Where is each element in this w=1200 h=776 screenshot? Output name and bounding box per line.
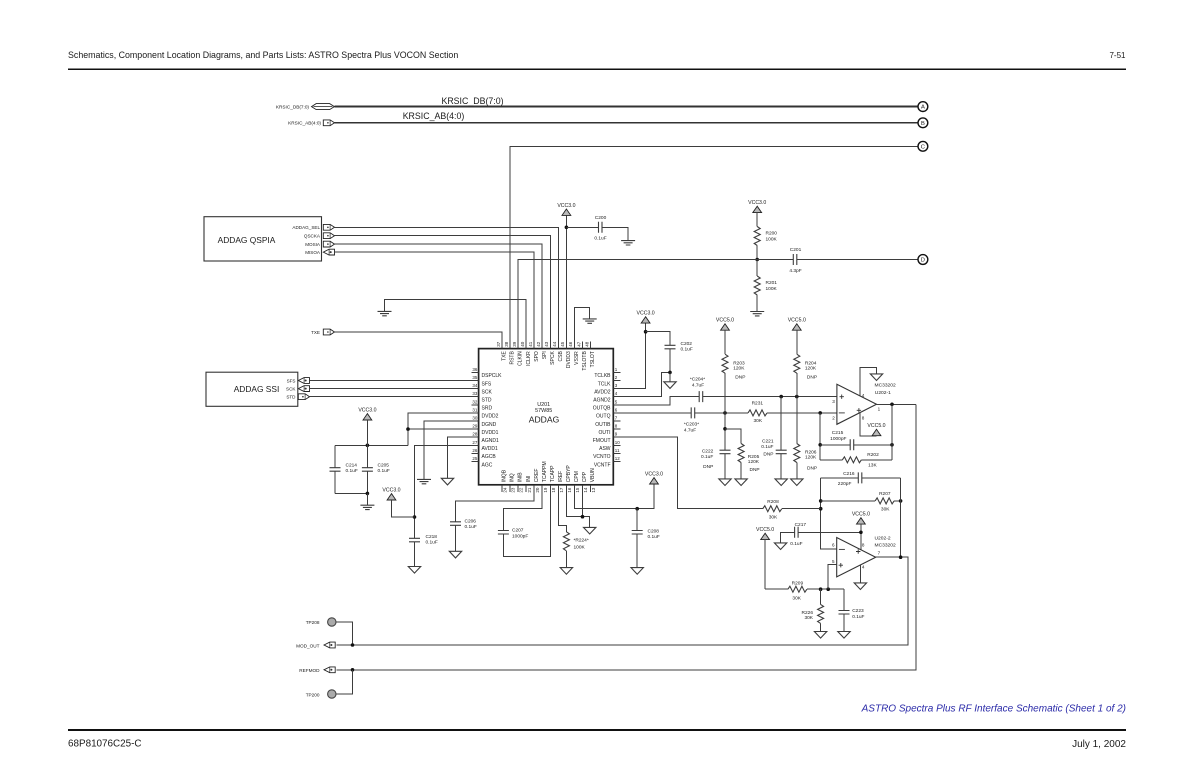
capacitor C200: [599, 222, 603, 233]
svg-text:0.1uF: 0.1uF: [594, 236, 606, 242]
svg-text:DVDD3: DVDD3: [566, 351, 572, 368]
svg-text:*C204*: *C204*: [690, 376, 705, 382]
junction R203/C222 tap: [723, 411, 727, 415]
svg-text:REFMOD: REFMOD: [299, 668, 320, 673]
power VCC5.0 at R203: [721, 324, 730, 330]
resistor R204 DNP: [794, 354, 800, 373]
wire ICLKR pin 40 to ground: [385, 300, 527, 349]
svg-text:VBUN: VBUN: [590, 468, 596, 482]
svg-text:8: 8: [862, 543, 865, 548]
svg-text:37: 37: [496, 341, 501, 347]
svg-text:FMOUT: FMOUT: [593, 438, 611, 444]
pin 14 CPP stub: [582, 485, 584, 492]
svg-text:TCAPP: TCAPP: [550, 465, 556, 482]
svg-text:16: 16: [567, 487, 572, 493]
junction at ground: [366, 492, 370, 496]
junction feedback tap: [818, 411, 822, 415]
svg-text:KRSIC_AB(4:0): KRSIC_AB(4:0): [288, 121, 321, 126]
svg-text:STD: STD: [482, 398, 492, 404]
wire R208 to U202-2: [782, 508, 821, 510]
pin 42 SPI stub: [541, 342, 543, 349]
svg-text:R231: R231: [752, 400, 764, 406]
svg-text:120K: 120K: [733, 366, 745, 372]
pin 38 RSTB stub: [509, 342, 511, 349]
analog ground at R224: [560, 568, 572, 575]
pin 30 DGND stub: [472, 420, 479, 422]
ground at C200: [621, 241, 635, 245]
wire C201 to D: [797, 259, 918, 261]
wire feedback left column: [819, 413, 821, 460]
analog ground at R205: [735, 479, 747, 486]
wire TXE to pin 37: [335, 332, 503, 349]
resistor R224: [563, 532, 569, 551]
svg-text:DNP: DNP: [807, 465, 817, 471]
wire CPM pin 15 to VCC3.0: [575, 484, 655, 509]
wire D line left to CLKIN pin 39: [518, 260, 793, 349]
wire C line to RSTB: [510, 146, 918, 348]
pin 16 CPBYP stub: [565, 485, 567, 492]
pin 41 SPO stub: [533, 342, 535, 349]
svg-text:DNP: DNP: [807, 375, 817, 381]
svg-text:VCC5.0: VCC5.0: [716, 318, 734, 324]
svg-text:C: C: [921, 144, 925, 150]
svg-text:4: 4: [615, 391, 618, 396]
power VCC3.0 at DVDD rail: [363, 414, 372, 420]
block ADDAG SSI: [206, 372, 298, 406]
svg-text:4.7uF: 4.7uF: [692, 382, 704, 388]
junction C215 left: [818, 443, 822, 447]
svg-text:VCNTO: VCNTO: [593, 454, 611, 460]
analog ground at C208: [631, 568, 643, 575]
wire VCC3.0 to DVDD3 pin 45: [565, 215, 567, 348]
svg-text:C222: C222: [702, 448, 714, 454]
wire C200 to ground: [602, 227, 628, 240]
analog ground at C223: [838, 632, 850, 639]
wire VCC5.0 to pin 8: [860, 524, 862, 550]
wire OUTQB pin 5 to C204: [613, 397, 699, 405]
pin 40 ICLKR stub: [525, 342, 527, 349]
wire R209 to + input node: [807, 588, 844, 590]
capacitor C206: [450, 522, 461, 526]
wire VCC3.0 to AVDD1: [392, 500, 415, 517]
wire U202-2 output to MOD_OUT: [337, 557, 908, 645]
ground at VSSR: [583, 319, 597, 323]
svg-text:17: 17: [559, 487, 564, 493]
svg-text:VCC5.0: VCC5.0: [756, 527, 774, 533]
tag TXE: [323, 329, 334, 335]
svg-text:VCC5.0: VCC5.0: [788, 318, 806, 324]
wire VCC5.0 to R203: [724, 330, 726, 354]
svg-text:7: 7: [878, 550, 881, 555]
tag ADDAG_SEL: [323, 224, 334, 230]
wire C217 to analog ground: [781, 532, 795, 543]
svg-text:35: 35: [472, 375, 478, 380]
svg-text:20: 20: [535, 487, 540, 493]
wire cap bottoms to ground: [335, 492, 367, 494]
wire AGND2 pin 4: [613, 372, 670, 396]
block ADDAG QSPIA: [204, 217, 322, 261]
svg-text:VCC3.0: VCC3.0: [557, 203, 575, 209]
analog ground at C218: [408, 567, 420, 574]
wire VCC5.0 to R204: [796, 330, 798, 354]
wire DVDD1 pin 29: [408, 428, 479, 430]
junction AVDD1/VCC3.0: [413, 515, 417, 519]
svg-text:DGND: DGND: [482, 422, 497, 428]
ground at DGND: [417, 479, 431, 483]
junction pin 5 riser: [826, 587, 830, 591]
svg-text:C207: C207: [512, 528, 524, 534]
analog ground at CPBYP: [584, 527, 596, 534]
svg-text:18: 18: [551, 487, 556, 493]
pin 27 AVDD1 stub: [472, 444, 479, 446]
svg-text:41: 41: [528, 341, 533, 347]
svg-text:3: 3: [832, 399, 835, 404]
svg-text:R226: R226: [802, 610, 814, 616]
resistor R206 DNP: [794, 444, 800, 463]
capacitor C217: [795, 527, 799, 538]
svg-text:VSSR: VSSR: [574, 351, 580, 365]
analog ground at C217: [774, 543, 786, 550]
wire VSSR pin 46 to ground: [575, 308, 590, 349]
wire MISOA to SPO pin 41: [335, 252, 535, 349]
svg-text:QSCKA: QSCKA: [304, 234, 321, 239]
capacitor C202: [665, 345, 676, 349]
svg-text:4: 4: [862, 393, 865, 398]
bus wire KRSIC_DB to A: [334, 106, 918, 108]
wire AVDD1 pin 27: [415, 445, 479, 538]
wire U202-1 pin 4 to analog ground: [860, 367, 876, 396]
svg-text:OUTI: OUTI: [599, 430, 611, 436]
svg-text:34: 34: [472, 383, 478, 388]
tag REFMOD: [324, 667, 335, 673]
svg-text:12: 12: [615, 456, 621, 461]
svg-text:0.1uF: 0.1uF: [648, 534, 660, 540]
svg-text:ADDAG QSPIA: ADDAG QSPIA: [218, 235, 276, 245]
resistor R207: [875, 498, 894, 504]
pin 11 VCNTO stub: [613, 452, 620, 454]
wire TP208 to MOD_OUT: [336, 622, 353, 645]
svg-text:9: 9: [615, 432, 618, 437]
svg-text:VCNTF: VCNTF: [594, 462, 611, 468]
pin 9 FMOUT stub: [613, 436, 620, 438]
svg-text:39: 39: [512, 341, 517, 347]
junction C221 tap: [779, 395, 783, 399]
pin 8 OUTI stub: [613, 428, 620, 430]
svg-text:SCK: SCK: [482, 389, 493, 395]
wire CREF pin 20 to C206: [456, 492, 535, 522]
wire C204 to op-amp +: [703, 396, 837, 398]
svg-text:INQB: INQB: [502, 469, 508, 482]
svg-text:33: 33: [472, 391, 478, 396]
pin 26 AGCB stub: [472, 452, 479, 454]
pin 15 CPM stub: [574, 485, 576, 492]
off-page connector D: [918, 255, 928, 265]
svg-text:7: 7: [615, 416, 618, 421]
power VCC5.0 at U202-1 pin 8: [872, 429, 881, 435]
svg-text:C201: C201: [790, 247, 802, 253]
svg-text:6: 6: [832, 543, 835, 548]
junction C222/R205: [723, 427, 727, 431]
wire R202 line: [820, 459, 842, 461]
wire SFS to pin 35: [310, 380, 479, 382]
wire C207 to TCAPP pin 18: [503, 492, 550, 557]
pin 2 TCLK stub: [613, 380, 620, 382]
pin 47 TSLOTB stub: [582, 342, 584, 349]
svg-text:220pF: 220pF: [838, 481, 852, 487]
svg-text:SPI: SPI: [542, 351, 548, 359]
svg-text:ADDAG: ADDAG: [529, 415, 560, 425]
svg-text:4: 4: [862, 565, 865, 570]
svg-text:13K: 13K: [868, 463, 877, 469]
svg-text:CPP: CPP: [582, 471, 588, 482]
svg-text:C206: C206: [465, 519, 477, 525]
svg-text:DSPCLK: DSPCLK: [482, 373, 503, 379]
svg-text:R206: R206: [805, 449, 817, 455]
tag SFS: [298, 378, 309, 384]
wire VCC5.0 down to R209: [764, 540, 766, 590]
junction TP200/REFMOD: [351, 668, 355, 672]
svg-text:R208: R208: [767, 499, 779, 505]
IC U201 ADDAG body: [479, 349, 614, 485]
svg-text:CPM: CPM: [574, 471, 580, 482]
junction R208 join: [819, 507, 823, 511]
svg-text:0.1uF: 0.1uF: [378, 468, 390, 474]
svg-text:30K: 30K: [881, 507, 890, 513]
tag MOSIA: [323, 241, 334, 247]
capacitor C214: [334, 445, 336, 467]
wire C221 column: [780, 397, 782, 451]
wire ADDAG_SEL to CSB pin 44: [335, 227, 559, 348]
svg-text:U202-2: U202-2: [875, 535, 891, 541]
svg-text:28: 28: [472, 432, 478, 437]
svg-text:SPCK: SPCK: [550, 351, 556, 365]
wire U202-2 pin 4 to analog ground: [859, 565, 861, 583]
svg-text:OUTQB: OUTQB: [593, 406, 611, 412]
wire R205 branch: [725, 429, 741, 444]
power VCC5.0 at R209: [761, 533, 770, 539]
svg-text:DNP: DNP: [703, 464, 713, 470]
junction output/C216 column: [899, 555, 903, 559]
capacitor C218: [409, 538, 420, 542]
pin 5 OUTQB stub: [613, 404, 620, 406]
svg-text:OUTQ: OUTQ: [596, 414, 611, 420]
svg-text:R205: R205: [748, 454, 760, 460]
svg-text:31: 31: [472, 407, 478, 412]
capacitor C223: [843, 589, 845, 610]
junction R226: [819, 587, 823, 591]
power VCC3.0 at R200: [753, 206, 762, 212]
svg-text:C208: C208: [648, 529, 660, 535]
svg-text:25: 25: [472, 456, 478, 461]
analog ground at C222: [719, 479, 731, 486]
svg-text:U201: U201: [537, 402, 550, 408]
svg-text:R207: R207: [879, 491, 891, 497]
wire output to REFMOD: [337, 404, 916, 670]
bus tag KRSIC_AB: [323, 120, 334, 126]
svg-text:TCLKB: TCLKB: [594, 373, 611, 379]
pin 23 INQ stub: [509, 485, 511, 492]
svg-text:0.1uF: 0.1uF: [761, 444, 773, 450]
svg-text:30K: 30K: [754, 418, 763, 424]
svg-text:22: 22: [519, 487, 524, 493]
pin 4 AGND2 stub: [613, 396, 620, 398]
ground at R201: [750, 312, 764, 316]
pin 3 AVDD2 stub: [613, 388, 620, 390]
analog ground at AGND2: [664, 382, 676, 389]
svg-text:100K: 100K: [766, 237, 778, 243]
svg-text:DVDD2: DVDD2: [482, 414, 499, 420]
wire feedback right column: [891, 404, 893, 460]
tag MOD_OUT: [324, 642, 335, 648]
power VCC3.0 at DVDD3: [562, 209, 571, 215]
wire CPBYP pin 16 to ground: [566, 492, 589, 528]
svg-text:11: 11: [615, 448, 620, 453]
svg-text:C215: C215: [832, 430, 844, 436]
svg-text:AVDD2: AVDD2: [594, 389, 611, 395]
wire R201 to ground: [756, 295, 758, 312]
wire C216 left column to pin 6: [821, 478, 837, 549]
wire DVDD2 pin 31: [408, 413, 479, 445]
svg-text:TP208: TP208: [306, 620, 320, 625]
svg-text:45: 45: [560, 341, 565, 347]
svg-text:C218: C218: [426, 534, 438, 540]
svg-text:27: 27: [472, 440, 478, 445]
wire VCC3.0 to R200: [756, 213, 758, 227]
svg-text:48: 48: [584, 341, 589, 347]
svg-text:MOD_OUT: MOD_OUT: [296, 643, 320, 648]
svg-text:VCC3.0: VCC3.0: [748, 200, 766, 206]
pin 33 STD stub: [472, 396, 479, 398]
pin 34 SCK stub: [472, 388, 479, 390]
svg-text:0.1uF: 0.1uF: [681, 346, 693, 352]
svg-text:OUTIB: OUTIB: [595, 422, 611, 428]
pin 48 TSLOT stub: [590, 342, 592, 349]
svg-text:TCLK: TCLK: [598, 381, 611, 387]
svg-text:SCK: SCK: [286, 387, 296, 392]
svg-text:47: 47: [576, 341, 581, 347]
header rule: [68, 68, 1126, 70]
svg-text:VCC5.0: VCC5.0: [867, 423, 885, 429]
svg-text:0.1uF: 0.1uF: [346, 468, 358, 474]
svg-text:0.1uF: 0.1uF: [465, 524, 477, 530]
svg-text:32: 32: [472, 399, 478, 404]
svg-text:1000pF: 1000pF: [512, 533, 528, 539]
svg-text:DNP: DNP: [735, 375, 745, 381]
wire VCC3.0 rail: [335, 444, 408, 446]
wire riser to pin 5: [828, 565, 837, 590]
pin 25 AGC stub: [472, 461, 479, 463]
wire C222 column: [724, 413, 726, 450]
pin 13 VBUN stub: [590, 485, 592, 492]
svg-text:AGND1: AGND1: [482, 438, 499, 444]
svg-text:R201: R201: [766, 280, 778, 286]
svg-text:U202-1: U202-1: [875, 390, 891, 396]
junction R200/R201 on D line: [755, 258, 759, 262]
svg-text:ADDAG_SEL: ADDAG_SEL: [292, 225, 320, 230]
svg-text:68P81076C25-C: 68P81076C25-C: [68, 739, 142, 750]
wire to analog ground: [669, 372, 671, 381]
svg-text:MC33202: MC33202: [875, 543, 896, 549]
svg-text:R209: R209: [792, 581, 804, 587]
wire U202-1 pin 8 to VCC5.0: [860, 413, 876, 436]
wire OUTQ pin 6 to C203: [613, 412, 691, 414]
power VCC3.0 at AVDD2: [641, 317, 650, 323]
svg-text:120K: 120K: [805, 366, 817, 372]
svg-text:10: 10: [615, 440, 621, 445]
svg-text:ICLKR: ICLKR: [526, 351, 532, 366]
wire SCK to pin 34: [310, 388, 479, 390]
svg-text:DNP: DNP: [750, 467, 760, 473]
tag STD: [298, 394, 309, 400]
svg-text:CSB: CSB: [558, 351, 564, 362]
svg-text:D: D: [921, 258, 925, 264]
wire C216 right column: [900, 478, 902, 557]
svg-text:INIB: INIB: [518, 472, 524, 482]
svg-text:A: A: [921, 105, 925, 111]
svg-text:8: 8: [862, 416, 865, 421]
svg-text:VCC3.0: VCC3.0: [382, 487, 400, 493]
pin 39 CLKIN stub: [517, 342, 519, 349]
svg-text:TXE: TXE: [311, 330, 320, 335]
svg-text:CPBYP: CPBYP: [566, 465, 572, 483]
junction rail/VCC3.0: [366, 444, 370, 448]
svg-text:DNP: DNP: [763, 451, 773, 457]
svg-text:MC33202: MC33202: [875, 383, 896, 389]
junction output/feedback: [890, 403, 894, 407]
pin 43 SPCK stub: [549, 342, 551, 349]
capacitor C201: [793, 254, 797, 265]
svg-text:TP200: TP200: [306, 692, 320, 697]
svg-text:DVDD1: DVDD1: [482, 430, 499, 436]
capacitor C216: [858, 472, 862, 483]
resistor R231: [748, 410, 767, 416]
pin 18 TCAPP stub: [549, 485, 551, 492]
wire R207 line: [821, 500, 875, 502]
svg-text:TSLOT: TSLOT: [590, 351, 596, 367]
capacitor C222 DNP: [720, 450, 731, 454]
wire TCAPPM pin 19 to C207: [503, 492, 542, 531]
off-page connector B: [918, 118, 928, 128]
svg-text:6: 6: [615, 407, 618, 412]
junction VCC3.0/C200: [565, 226, 569, 230]
svg-text:0.1uF: 0.1uF: [701, 454, 713, 460]
footer rule: [68, 729, 1126, 731]
svg-text:C217: C217: [795, 522, 807, 528]
pin 17 IREF stub: [557, 485, 559, 492]
svg-text:2: 2: [832, 415, 835, 420]
pin 32 SRD stub: [472, 404, 479, 406]
bus wire KRSIC_AB to B: [335, 122, 919, 124]
svg-text:30: 30: [472, 416, 478, 421]
svg-text:24: 24: [503, 487, 508, 493]
op-amp U202-2 MC33202: [837, 538, 876, 577]
pin 10 ASW stub: [613, 444, 620, 446]
pin 19 TCAPPM stub: [541, 485, 543, 492]
svg-text:1000pF: 1000pF: [830, 436, 846, 442]
svg-text:46: 46: [568, 341, 573, 347]
pin 20 CREF stub: [533, 485, 535, 492]
wire QSCKA to SPCK pin 43: [335, 236, 551, 349]
svg-text:KRSIC_DB(7:0): KRSIC_DB(7:0): [441, 96, 503, 106]
junction CPM/C208: [635, 507, 639, 511]
svg-text:7-51: 7-51: [1109, 51, 1126, 60]
wire MOSIA to SPI pin 42: [335, 244, 543, 349]
svg-text:R202: R202: [867, 452, 879, 458]
capacitor C205: [366, 445, 368, 467]
power VCC3.0 at AVDD1: [387, 494, 396, 500]
pin 22 INIB stub: [517, 485, 519, 492]
svg-text:5: 5: [615, 399, 618, 404]
